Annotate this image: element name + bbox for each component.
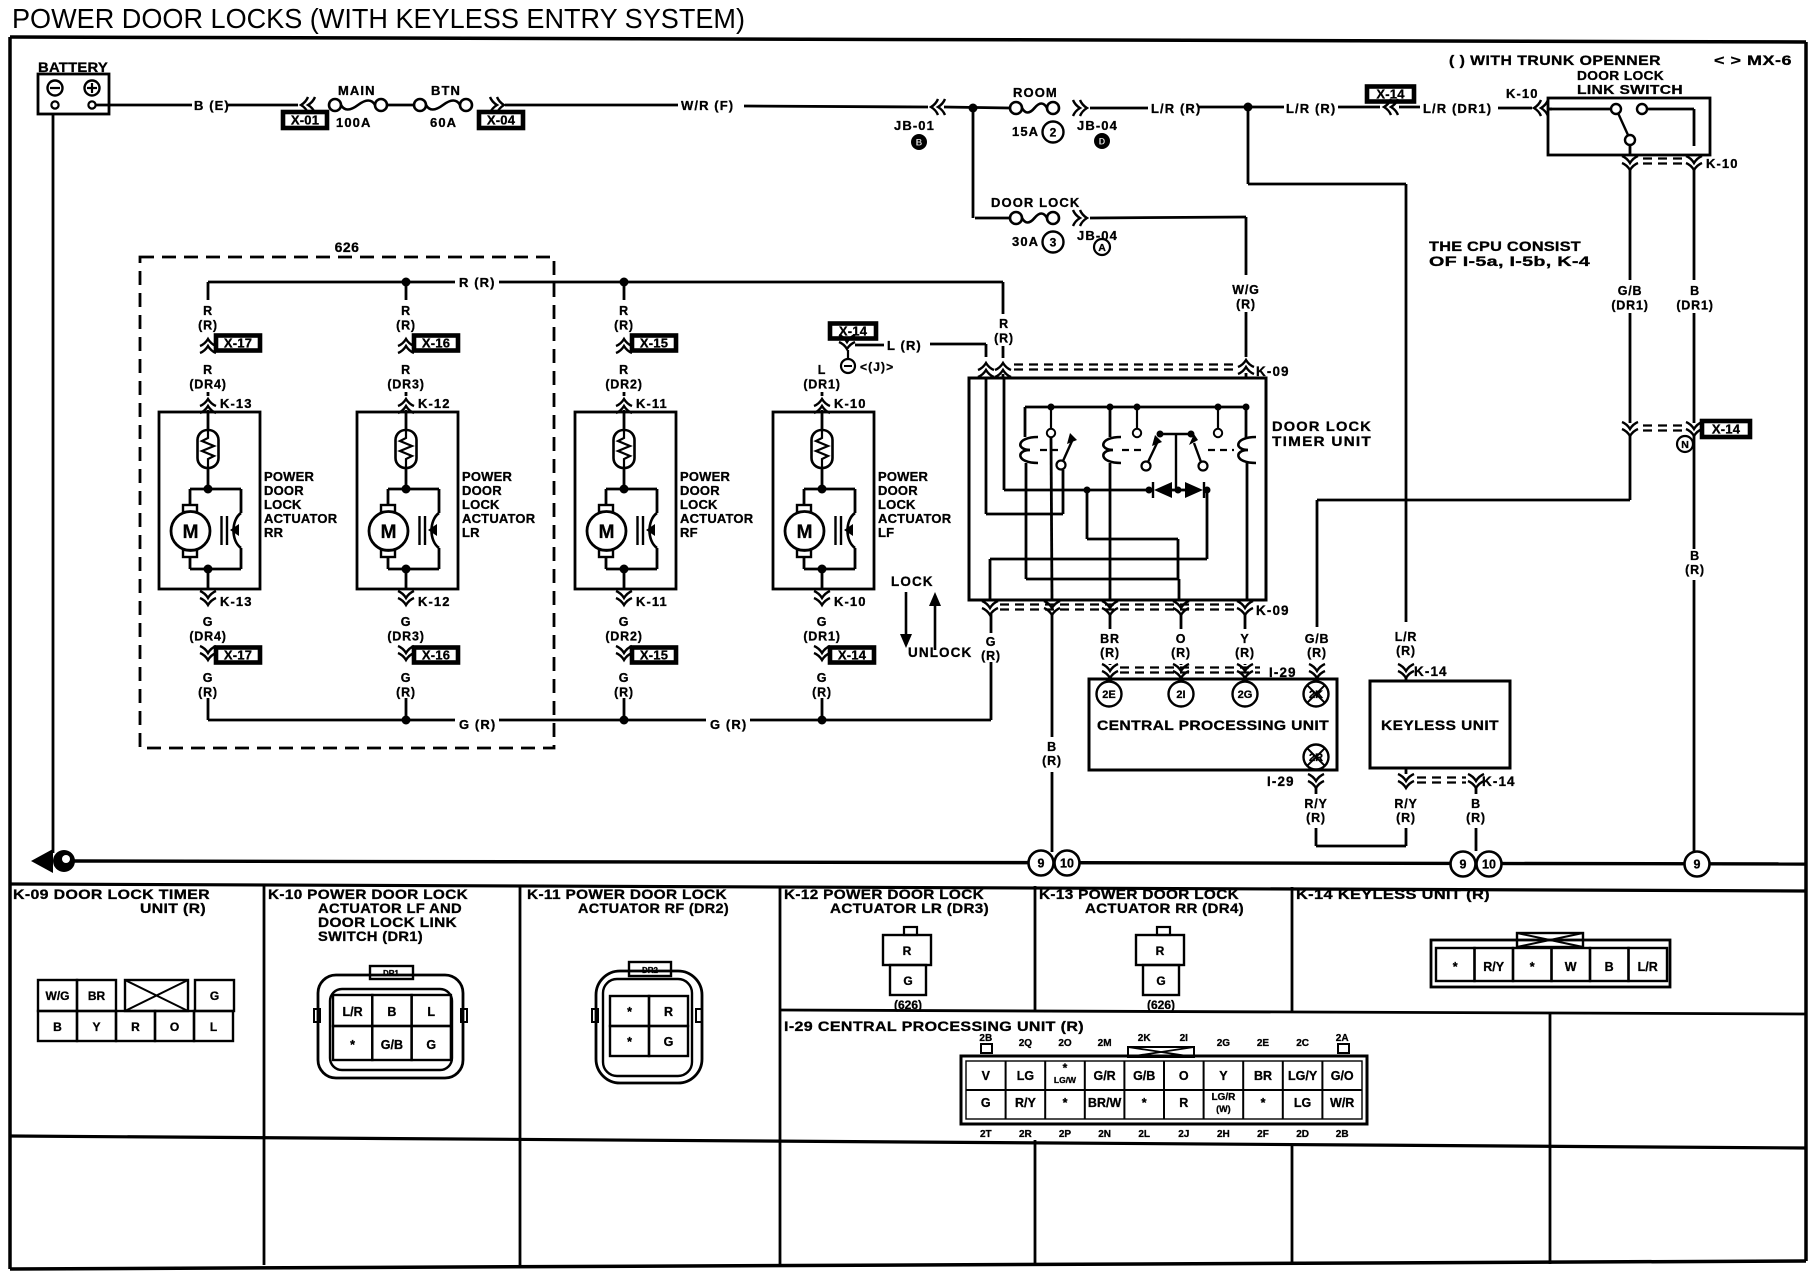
- svg-text:R: R: [1156, 944, 1165, 958]
- svg-text:K-14 KEYLESS UNIT (R): K-14 KEYLESS UNIT (R): [1296, 887, 1490, 902]
- svg-text:(R): (R): [1396, 811, 1416, 825]
- svg-text:2R: 2R: [1019, 1129, 1033, 1140]
- svg-text:K-13: K-13: [220, 396, 253, 411]
- svg-text:ACTUATOR: ACTUATOR: [462, 511, 536, 526]
- svg-text:L/R: L/R: [343, 1005, 363, 1019]
- svg-text:W: W: [1565, 960, 1577, 974]
- svg-text:X-17: X-17: [224, 336, 252, 351]
- svg-text:(DR3): (DR3): [387, 630, 424, 644]
- svg-text:LOCK: LOCK: [680, 497, 718, 512]
- svg-text:G: G: [817, 671, 828, 685]
- svg-text:RF: RF: [680, 525, 698, 540]
- svg-text:M: M: [183, 522, 199, 543]
- svg-text:MAIN: MAIN: [338, 83, 376, 98]
- svg-text:10: 10: [1060, 857, 1074, 871]
- svg-text:R: R: [664, 1005, 673, 1019]
- svg-text:B: B: [1471, 797, 1481, 811]
- svg-text:X-14: X-14: [1712, 422, 1741, 437]
- svg-text:(DR2): (DR2): [605, 378, 642, 392]
- svg-text:THE CPU CONSIST: THE CPU CONSIST: [1429, 239, 1582, 254]
- svg-text:2G: 2G: [1217, 1038, 1231, 1049]
- svg-text:ACTUATOR: ACTUATOR: [264, 511, 338, 526]
- svg-text:X-01: X-01: [291, 113, 319, 128]
- svg-text:LOCK: LOCK: [264, 497, 302, 512]
- svg-text:K-09 DOOR LOCK TIMER: K-09 DOOR LOCK TIMER: [13, 887, 210, 902]
- svg-text:2O: 2O: [1058, 1038, 1072, 1049]
- svg-text:G: G: [203, 671, 214, 685]
- svg-text:R: R: [401, 363, 411, 377]
- svg-text:R: R: [999, 317, 1009, 331]
- svg-text:OF I-5a, I-5b, K-4: OF I-5a, I-5b, K-4: [1429, 254, 1590, 269]
- svg-text:G: G: [986, 635, 997, 649]
- svg-text:K-14: K-14: [1414, 664, 1448, 679]
- svg-text:(DR1): (DR1): [803, 630, 840, 644]
- svg-text:UNLOCK: UNLOCK: [908, 645, 972, 660]
- svg-text:BR: BR: [88, 989, 106, 1003]
- svg-text:Y: Y: [1219, 1069, 1228, 1083]
- svg-text:R/Y: R/Y: [1394, 797, 1417, 811]
- svg-text:(R): (R): [614, 686, 634, 700]
- svg-text:O: O: [1179, 1069, 1189, 1083]
- svg-text:K-12 POWER DOOR LOCK: K-12 POWER DOOR LOCK: [784, 887, 984, 902]
- svg-text:JB-04: JB-04: [1077, 118, 1118, 133]
- svg-text:L: L: [427, 1005, 435, 1019]
- svg-text:(DR2): (DR2): [605, 630, 642, 644]
- svg-text:2J: 2J: [1178, 1129, 1189, 1140]
- svg-text:2E: 2E: [1102, 689, 1115, 701]
- svg-text:LG: LG: [1017, 1069, 1034, 1083]
- svg-text:626: 626: [335, 239, 360, 255]
- svg-text:R/Y: R/Y: [1015, 1096, 1037, 1110]
- svg-text:Y: Y: [1240, 632, 1249, 646]
- svg-text:L (R): L (R): [887, 338, 922, 353]
- svg-text:2Q: 2Q: [1019, 1038, 1033, 1049]
- svg-text:9: 9: [1460, 858, 1467, 872]
- svg-text:I-29 CENTRAL PROCESSING UNIT (: I-29 CENTRAL PROCESSING UNIT (R): [784, 1019, 1084, 1034]
- svg-text:(R): (R): [1306, 811, 1326, 825]
- svg-text:JB-01: JB-01: [894, 118, 935, 133]
- svg-text:L: L: [818, 363, 826, 377]
- svg-text:2P: 2P: [1059, 1129, 1072, 1140]
- svg-text:POWER: POWER: [264, 469, 315, 484]
- svg-text:(DR4): (DR4): [189, 378, 226, 392]
- svg-text:X-17: X-17: [224, 648, 252, 663]
- svg-text:G: G: [817, 615, 828, 629]
- svg-text:*: *: [350, 1038, 355, 1052]
- svg-text:LR: LR: [462, 525, 480, 540]
- svg-text:L/R (R): L/R (R): [1286, 101, 1336, 116]
- svg-text:(R): (R): [1466, 811, 1486, 825]
- svg-text:(DR1): (DR1): [1676, 299, 1713, 313]
- svg-text:B: B: [387, 1005, 396, 1019]
- svg-text:B: B: [1690, 284, 1700, 298]
- svg-text:2M: 2M: [1098, 1038, 1112, 1049]
- svg-text:(R): (R): [1042, 754, 1062, 768]
- svg-text:G/R: G/R: [1093, 1069, 1115, 1083]
- svg-text:(626): (626): [1147, 998, 1175, 1012]
- svg-text:ROOM: ROOM: [1013, 85, 1058, 100]
- svg-text:2K: 2K: [1138, 1033, 1152, 1044]
- svg-text:K-09: K-09: [1256, 603, 1290, 618]
- svg-text:L/R: L/R: [1638, 960, 1658, 974]
- svg-text:L/R (DR1): L/R (DR1): [1423, 101, 1492, 116]
- svg-text:K-10: K-10: [834, 594, 867, 609]
- svg-text:2T: 2T: [980, 1129, 992, 1140]
- svg-text:POWER: POWER: [680, 469, 731, 484]
- svg-text:O: O: [1176, 632, 1187, 646]
- svg-text:K-12: K-12: [418, 594, 451, 609]
- svg-text:ACTUATOR: ACTUATOR: [680, 511, 754, 526]
- svg-text:*: *: [1261, 1096, 1266, 1110]
- svg-text:2N: 2N: [1098, 1129, 1111, 1140]
- svg-text:G: G: [401, 615, 412, 629]
- svg-text:POWER: POWER: [462, 469, 513, 484]
- svg-text:DR1: DR1: [383, 969, 400, 978]
- svg-text:LOCK: LOCK: [462, 497, 500, 512]
- svg-text:G: G: [981, 1096, 991, 1110]
- svg-text:( ) WITH TRUNK OPENNER: ( ) WITH TRUNK OPENNER: [1449, 53, 1661, 68]
- svg-text:A: A: [1098, 242, 1106, 254]
- svg-text:DOOR: DOOR: [878, 483, 918, 498]
- svg-text:G: G: [664, 1035, 674, 1049]
- svg-text:G: G: [203, 615, 214, 629]
- svg-text:BR/W: BR/W: [1088, 1096, 1122, 1110]
- svg-text:(R): (R): [1171, 646, 1191, 660]
- svg-text:K-10: K-10: [834, 396, 867, 411]
- svg-text:L/R: L/R: [1395, 630, 1418, 644]
- svg-text:X-04: X-04: [487, 113, 516, 128]
- svg-text:SWITCH (DR1): SWITCH (DR1): [318, 929, 423, 944]
- svg-text:ACTUATOR: ACTUATOR: [878, 511, 952, 526]
- svg-text:TIMER UNIT: TIMER UNIT: [1272, 434, 1372, 449]
- svg-text:X-15: X-15: [640, 648, 668, 663]
- svg-text:*: *: [1453, 960, 1458, 974]
- svg-text:LG: LG: [1294, 1096, 1311, 1110]
- svg-text:(R): (R): [994, 332, 1014, 346]
- svg-text:9: 9: [1694, 858, 1701, 872]
- svg-text:LOCK: LOCK: [891, 574, 934, 589]
- svg-text:2G: 2G: [1238, 689, 1253, 701]
- svg-text:DOOR LOCK LINK: DOOR LOCK LINK: [318, 915, 457, 930]
- svg-text:BTN: BTN: [431, 83, 461, 98]
- svg-text:(R): (R): [198, 319, 218, 333]
- svg-text:2C: 2C: [1296, 1038, 1309, 1049]
- svg-text:LG/W: LG/W: [1054, 1075, 1077, 1085]
- svg-text:R/Y: R/Y: [1304, 797, 1327, 811]
- svg-text:B: B: [1047, 740, 1057, 754]
- svg-text:LINK SWITCH: LINK SWITCH: [1577, 82, 1683, 97]
- svg-text:(DR1): (DR1): [1611, 299, 1648, 313]
- svg-text:K-10 POWER DOOR LOCK: K-10 POWER DOOR LOCK: [268, 887, 468, 902]
- svg-text:X-14: X-14: [838, 648, 867, 663]
- svg-text:15A: 15A: [1012, 124, 1039, 139]
- svg-text:2L: 2L: [1138, 1129, 1150, 1140]
- svg-text:K-10: K-10: [1706, 156, 1739, 171]
- svg-text:*: *: [1063, 1096, 1068, 1110]
- svg-text:ACTUATOR LF AND: ACTUATOR LF AND: [318, 901, 462, 916]
- svg-text:N: N: [1681, 439, 1689, 451]
- svg-text:R: R: [903, 944, 912, 958]
- svg-text:DR2: DR2: [642, 966, 659, 975]
- svg-text:*: *: [1063, 1061, 1068, 1075]
- svg-text:W/R: W/R: [1330, 1096, 1354, 1110]
- svg-text:M: M: [381, 522, 397, 543]
- svg-text:V: V: [982, 1069, 991, 1083]
- svg-text:G/B: G/B: [1305, 632, 1330, 646]
- svg-text:2A: 2A: [1336, 1033, 1349, 1044]
- svg-text:I-29: I-29: [1267, 774, 1295, 789]
- svg-text:X-15: X-15: [640, 336, 668, 351]
- svg-text:(R): (R): [1685, 563, 1705, 577]
- svg-text:R: R: [203, 304, 213, 318]
- svg-text:(DR1): (DR1): [803, 378, 840, 392]
- svg-text:Y: Y: [92, 1020, 100, 1034]
- svg-text:B: B: [916, 138, 923, 148]
- svg-text:2I: 2I: [1180, 1033, 1189, 1044]
- svg-text:(R): (R): [1236, 298, 1256, 312]
- svg-text:L: L: [210, 1020, 217, 1034]
- svg-text:RR: RR: [264, 525, 284, 540]
- svg-text:2E: 2E: [1257, 1038, 1270, 1049]
- svg-text:100A: 100A: [336, 115, 371, 130]
- svg-text:2D: 2D: [1296, 1129, 1309, 1140]
- svg-text:(626): (626): [894, 998, 922, 1012]
- svg-text:(R): (R): [614, 319, 634, 333]
- svg-text:CENTRAL PROCESSING UNIT: CENTRAL PROCESSING UNIT: [1097, 718, 1330, 733]
- svg-text:(R): (R): [812, 686, 832, 700]
- svg-text:(R): (R): [1235, 646, 1255, 660]
- svg-text:R (R): R (R): [459, 275, 496, 290]
- svg-text:ACTUATOR RR (DR4): ACTUATOR RR (DR4): [1085, 901, 1244, 916]
- svg-text:DOOR LOCK: DOOR LOCK: [1577, 68, 1664, 83]
- svg-text:R: R: [1179, 1096, 1188, 1110]
- svg-text:K-13 POWER DOOR LOCK: K-13 POWER DOOR LOCK: [1039, 887, 1239, 902]
- svg-text:<(J)>: <(J)>: [860, 360, 894, 374]
- svg-text:(DR4): (DR4): [189, 630, 226, 644]
- svg-text:DOOR: DOOR: [680, 483, 720, 498]
- svg-text:10: 10: [1482, 858, 1496, 872]
- svg-text:G/B: G/B: [1133, 1069, 1155, 1083]
- svg-text:B: B: [1690, 549, 1700, 563]
- svg-text:DOOR: DOOR: [462, 483, 502, 498]
- svg-text:LG/R: LG/R: [1211, 1092, 1236, 1103]
- svg-text:B: B: [1605, 960, 1614, 974]
- svg-text:G: G: [903, 974, 912, 988]
- svg-text:R: R: [619, 363, 629, 377]
- svg-text:UNIT (R): UNIT (R): [140, 901, 206, 916]
- svg-text:X-16: X-16: [422, 336, 450, 351]
- svg-text:K-12: K-12: [418, 396, 451, 411]
- svg-text:R: R: [619, 304, 629, 318]
- svg-text:*: *: [1530, 960, 1535, 974]
- svg-text:< > MX-6: < > MX-6: [1714, 53, 1792, 68]
- svg-text:G: G: [401, 671, 412, 685]
- svg-text:B (E): B (E): [194, 98, 230, 113]
- svg-text:2: 2: [1050, 126, 1057, 140]
- svg-text:K-11: K-11: [636, 594, 668, 609]
- svg-text:BR: BR: [1100, 632, 1120, 646]
- svg-text:K-13: K-13: [220, 594, 253, 609]
- svg-text:W/G: W/G: [46, 989, 70, 1003]
- svg-text:L/R (R): L/R (R): [1151, 101, 1201, 116]
- svg-text:DOOR: DOOR: [264, 483, 304, 498]
- svg-text:(R): (R): [1307, 646, 1327, 660]
- svg-text:K-10: K-10: [1506, 86, 1539, 101]
- svg-text:LF: LF: [878, 525, 894, 540]
- svg-text:ACTUATOR RF (DR2): ACTUATOR RF (DR2): [578, 901, 729, 916]
- svg-text:*: *: [1142, 1096, 1147, 1110]
- svg-text:B: B: [53, 1020, 62, 1034]
- svg-text:D: D: [1099, 137, 1106, 147]
- svg-text:DOOR LOCK: DOOR LOCK: [991, 195, 1080, 210]
- svg-text:W/R (F): W/R (F): [681, 98, 734, 113]
- svg-text:O: O: [170, 1020, 179, 1034]
- svg-text:G: G: [619, 671, 630, 685]
- svg-text:2I: 2I: [1176, 689, 1185, 701]
- svg-text:(R): (R): [396, 686, 416, 700]
- svg-text:30A: 30A: [1012, 234, 1039, 249]
- svg-text:K-11 POWER DOOR LOCK: K-11 POWER DOOR LOCK: [527, 887, 727, 902]
- svg-text:3: 3: [1050, 236, 1057, 250]
- svg-text:*: *: [627, 1005, 632, 1019]
- svg-text:KEYLESS UNIT: KEYLESS UNIT: [1381, 718, 1499, 733]
- svg-text:G (R): G (R): [459, 717, 496, 732]
- svg-text:R/Y: R/Y: [1483, 960, 1505, 974]
- svg-text:M: M: [797, 522, 813, 543]
- svg-text:K-11: K-11: [636, 396, 668, 411]
- svg-text:60A: 60A: [430, 115, 457, 130]
- svg-text:(R): (R): [396, 319, 416, 333]
- svg-text:POWER DOOR LOCKS (WITH KEYLESS: POWER DOOR LOCKS (WITH KEYLESS ENTRY SYS…: [12, 3, 745, 34]
- svg-text:LOCK: LOCK: [878, 497, 916, 512]
- svg-text:G: G: [619, 615, 630, 629]
- svg-text:2B: 2B: [979, 1033, 992, 1044]
- svg-text:R: R: [203, 363, 213, 377]
- svg-text:2H: 2H: [1217, 1129, 1230, 1140]
- svg-text:2B: 2B: [1336, 1129, 1349, 1140]
- svg-text:X-16: X-16: [422, 648, 450, 663]
- svg-text:G: G: [1156, 974, 1165, 988]
- svg-text:*: *: [627, 1035, 632, 1049]
- svg-text:(R): (R): [981, 649, 1001, 663]
- svg-text:G (R): G (R): [710, 717, 747, 732]
- svg-text:9: 9: [1038, 857, 1045, 871]
- svg-text:DOOR LOCK: DOOR LOCK: [1272, 419, 1372, 434]
- svg-text:ACTUATOR LR (DR3): ACTUATOR LR (DR3): [830, 901, 989, 916]
- svg-text:G/O: G/O: [1331, 1069, 1354, 1083]
- svg-text:G: G: [426, 1038, 436, 1052]
- svg-text:G: G: [210, 989, 219, 1003]
- svg-text:(DR3): (DR3): [387, 378, 424, 392]
- svg-text:(R): (R): [198, 686, 218, 700]
- svg-text:R: R: [131, 1020, 140, 1034]
- svg-text:G/B: G/B: [1618, 284, 1643, 298]
- svg-text:K-14: K-14: [1482, 774, 1516, 789]
- svg-text:(R): (R): [1100, 646, 1120, 660]
- svg-text:BR: BR: [1254, 1069, 1272, 1083]
- svg-text:POWER: POWER: [878, 469, 929, 484]
- svg-text:W/G: W/G: [1232, 283, 1259, 297]
- svg-text:(W): (W): [1216, 1104, 1231, 1114]
- svg-text:M: M: [599, 522, 615, 543]
- svg-text:R: R: [401, 304, 411, 318]
- svg-text:2F: 2F: [1257, 1129, 1269, 1140]
- svg-text:LG/Y: LG/Y: [1288, 1069, 1318, 1083]
- svg-text:(R): (R): [1396, 644, 1416, 658]
- svg-text:G/B: G/B: [381, 1038, 403, 1052]
